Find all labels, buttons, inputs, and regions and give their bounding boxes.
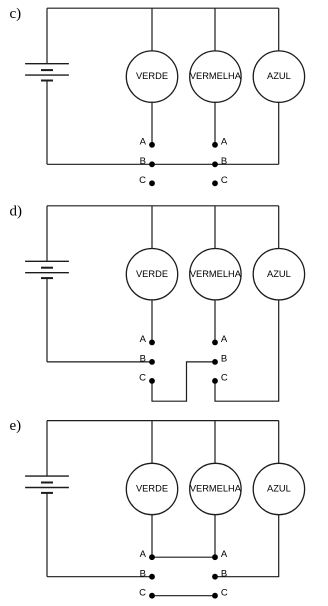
wire: top supply bus (section e) xyxy=(47,420,279,422)
contact B left (section d) xyxy=(149,359,155,365)
svg-text:B: B xyxy=(221,354,227,365)
wire: battery to left contact B (section e) xyxy=(47,576,152,578)
svg-text:A: A xyxy=(140,334,147,345)
svg-text:C: C xyxy=(221,175,228,186)
wire: VERDE bottom lead to contact A (section c) xyxy=(151,102,153,145)
wire: AZUL lamp top lead (section c) xyxy=(278,8,280,51)
lamp VERDE (section d) xyxy=(126,249,177,300)
contact A right (section e) xyxy=(212,554,218,560)
lamp VERMELHA (section e) xyxy=(190,463,241,514)
battery BTd: positive plate (long) xyxy=(25,260,69,262)
contact C left (section e) xyxy=(149,593,155,599)
contact B left (section e) xyxy=(149,574,155,580)
lamp VERDE (section e) xyxy=(126,463,177,514)
svg-text:VERMELHA: VERMELHA xyxy=(190,71,242,81)
wire: VERDE lamp top lead (section e) xyxy=(151,421,153,464)
contact C right (section d) xyxy=(212,378,218,384)
svg-text:A: A xyxy=(221,136,228,147)
contact B right (section d) xyxy=(212,359,218,365)
wire: B bus from battery to AZUL (section c) xyxy=(47,163,279,165)
battery BTd: second negative plate (short) xyxy=(41,277,53,279)
contact A right (section d) xyxy=(212,340,218,346)
wire: battery positive lead (section d) xyxy=(46,206,48,261)
svg-text:B: B xyxy=(140,354,146,365)
contact C left (section c) xyxy=(149,180,155,186)
svg-text:B: B xyxy=(221,156,227,167)
contact A right (section c) xyxy=(212,142,218,148)
lamp VERMELHA (section d) xyxy=(190,249,241,300)
svg-text:e): e) xyxy=(10,418,22,434)
wire: AZUL bottom lead (section c) xyxy=(278,102,280,164)
svg-text:d): d) xyxy=(10,203,23,219)
contact B right (section e) xyxy=(212,574,218,580)
svg-text:C: C xyxy=(221,587,228,598)
contact A left (section e) xyxy=(149,554,155,560)
wire: left contact C to right contact B, stepped (section d) xyxy=(152,362,215,401)
battery BTe: negative plate (short) xyxy=(41,482,53,484)
battery BTe: second negative plate (short) xyxy=(41,492,53,494)
lamp AZUL (section e) xyxy=(253,463,304,514)
lamp AZUL (section d) xyxy=(253,249,304,300)
wire: VERMELHA bottom lead to contact A (section c) xyxy=(214,102,216,145)
svg-text:C: C xyxy=(221,373,228,384)
battery BTe: second positive plate (long) xyxy=(25,487,69,489)
battery BTc: second negative plate (short) xyxy=(41,80,53,82)
wire: AZUL lamp top lead (section e) xyxy=(278,421,280,464)
wire: VERMELHA bottom lead to contact A (section e) xyxy=(214,515,216,558)
svg-text:C: C xyxy=(139,373,146,384)
wire: battery to left contact B (section d) xyxy=(47,361,152,363)
lamp AZUL (section c) xyxy=(253,51,304,102)
svg-text:A: A xyxy=(221,549,228,560)
wire: VERMELHA bottom lead to contact A (section d) xyxy=(214,300,216,343)
svg-text:B: B xyxy=(221,568,227,579)
battery BTd: second positive plate (long) xyxy=(25,272,69,274)
svg-text:A: A xyxy=(221,334,228,345)
contact C left (section d) xyxy=(149,378,155,384)
wire: battery positive lead (section c) xyxy=(46,8,48,64)
contact B right (section c) xyxy=(212,161,218,167)
wire: battery negative lead down (section d) xyxy=(46,278,48,362)
wire: VERDE bottom lead to contact A (section d) xyxy=(151,300,153,343)
contact B left (section c) xyxy=(149,161,155,167)
wire: VERMELHA lamp top lead (section d) xyxy=(214,206,216,249)
wire: VERDE lamp top lead (section d) xyxy=(151,206,153,249)
svg-text:AZUL: AZUL xyxy=(267,71,291,81)
battery BTc: second positive plate (long) xyxy=(25,74,69,76)
svg-text:AZUL: AZUL xyxy=(267,269,291,279)
contact C right (section c) xyxy=(212,180,218,186)
svg-text:c): c) xyxy=(10,6,22,22)
svg-text:B: B xyxy=(140,568,146,579)
svg-text:VERDE: VERDE xyxy=(136,269,168,279)
wire: right contact B to AZUL bottom lead (section e) xyxy=(215,515,279,577)
svg-text:B: B xyxy=(140,156,146,167)
svg-text:C: C xyxy=(139,175,146,186)
svg-text:AZUL: AZUL xyxy=(267,484,291,494)
wire: top supply bus (section c) xyxy=(47,7,279,9)
contact A left (section d) xyxy=(149,340,155,346)
lamp VERDE (section c) xyxy=(126,51,177,102)
battery BTe: positive plate (long) xyxy=(25,475,69,477)
svg-text:VERDE: VERDE xyxy=(136,71,168,81)
wire: top supply bus (section d) xyxy=(47,205,279,207)
svg-text:A: A xyxy=(140,136,147,147)
lamp VERMELHA (section c) xyxy=(190,51,241,102)
svg-text:C: C xyxy=(139,587,146,598)
wire: battery negative lead down (section c) xyxy=(46,81,48,165)
battery BTd: negative plate (short) xyxy=(41,267,53,269)
wire: VERMELHA lamp top lead (section e) xyxy=(214,421,216,464)
svg-text:VERDE: VERDE xyxy=(136,484,168,494)
wire: contact C link left-right (section e) xyxy=(152,595,215,597)
wire: contact A link left-right (section e) xyxy=(152,556,215,558)
svg-text:A: A xyxy=(140,549,147,560)
battery BTc: negative plate (short) xyxy=(41,69,53,71)
contact A left (section c) xyxy=(149,142,155,148)
contact C right (section e) xyxy=(212,593,218,599)
svg-text:VERMELHA: VERMELHA xyxy=(190,269,242,279)
wire: AZUL lamp top lead (section d) xyxy=(278,206,280,249)
battery BTc: positive plate (long) xyxy=(25,63,69,65)
wire: VERDE lamp top lead (section c) xyxy=(151,8,153,51)
wire: VERDE bottom lead to contact A (section e) xyxy=(151,515,153,558)
wire: battery positive lead (section e) xyxy=(46,421,48,477)
svg-text:VERMELHA: VERMELHA xyxy=(190,484,242,494)
wire: right contact C to AZUL bottom lead (section d) xyxy=(215,300,279,401)
wire: battery negative lead down (section e) xyxy=(46,493,48,577)
wire: VERMELHA lamp top lead (section c) xyxy=(214,8,216,51)
